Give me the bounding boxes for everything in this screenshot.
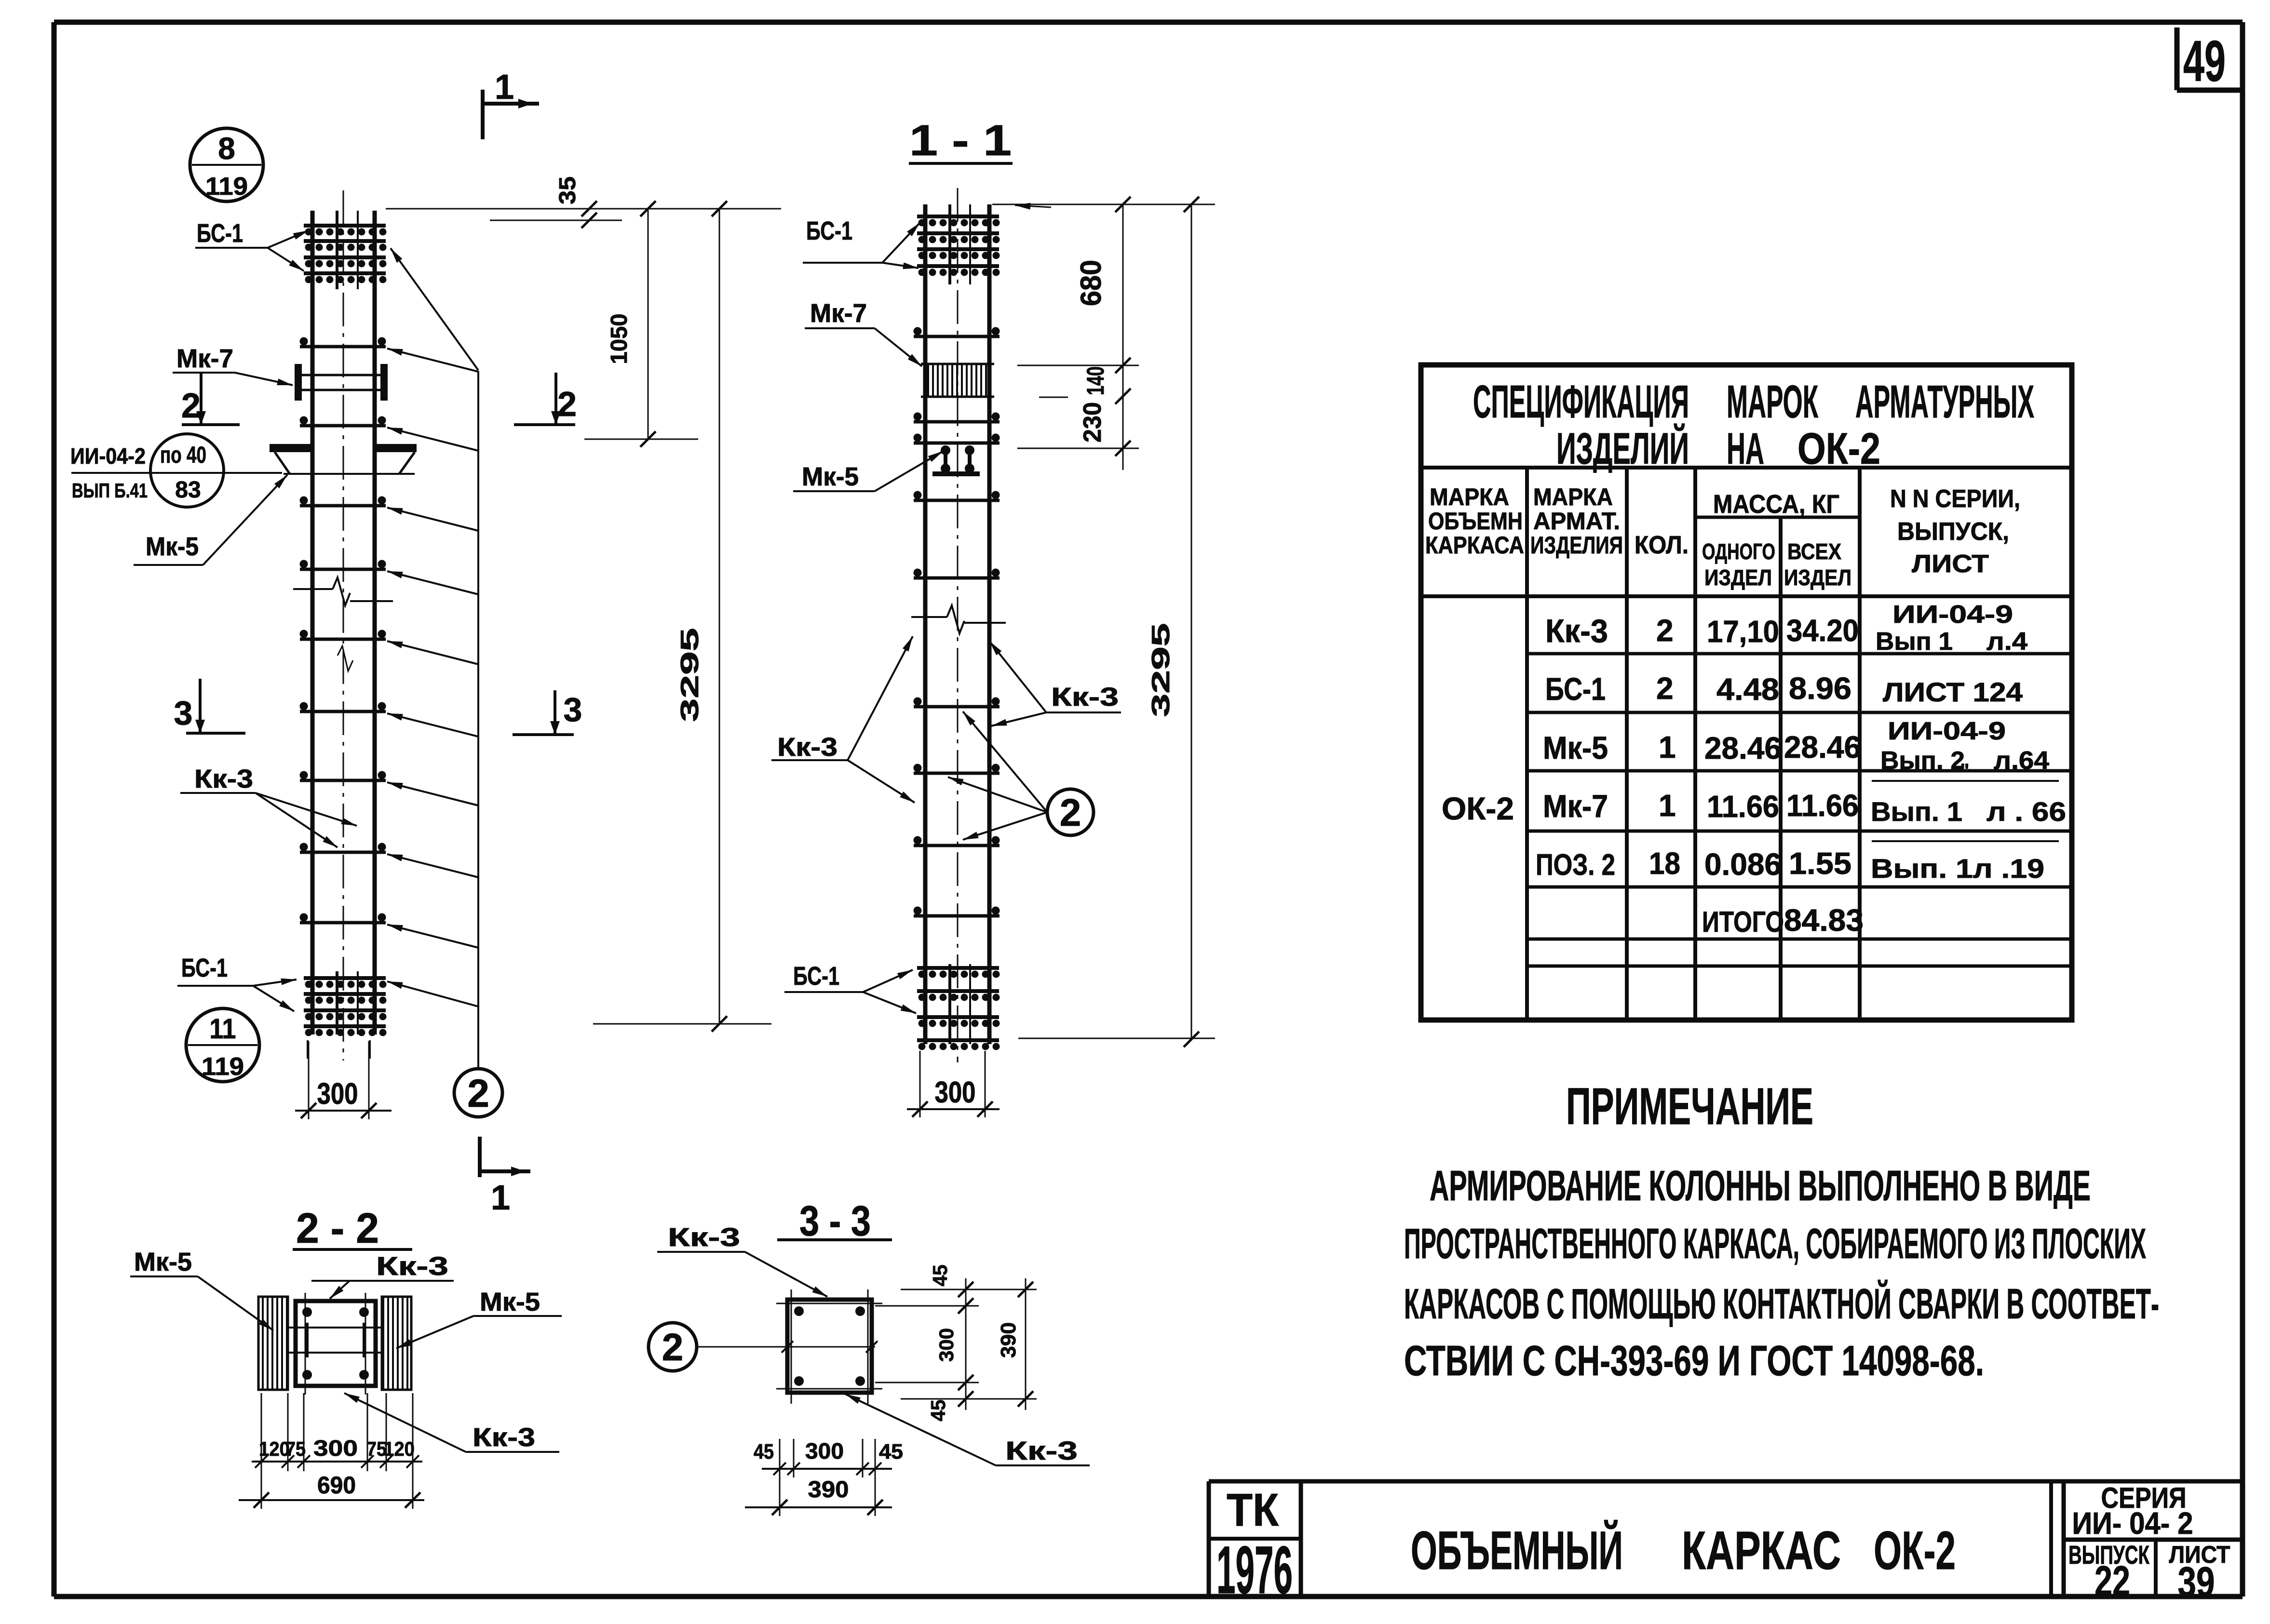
svg-text:3295: 3295 [676,628,704,722]
svg-text:Мк-5: Мк-5 [146,532,199,561]
svg-text:8.96: 8.96 [1789,671,1851,706]
svg-text:1: 1 [1659,730,1676,765]
svg-text:Мк-5: Мк-5 [802,462,859,491]
svg-text:22: 22 [2094,1557,2130,1605]
svg-text:45: 45 [927,1400,949,1422]
svg-text:Кк-3: Кк-3 [777,733,838,762]
svg-text:390: 390 [997,1322,1020,1358]
svg-text:МАРКА: МАРКА [1533,483,1613,510]
svg-text:45: 45 [879,1440,903,1463]
svg-text:2: 2 [1060,791,1081,834]
svg-text:84.83: 84.83 [1784,903,1864,938]
svg-text:120: 120 [384,1437,415,1460]
svg-text:ИЗДЕЛИЙ: ИЗДЕЛИЙ [1556,423,1689,473]
svg-text:3: 3 [174,694,193,732]
svg-text:Кк-3: Кк-3 [1005,1436,1078,1465]
svg-text:2: 2 [1656,671,1674,706]
svg-text:140: 140 [1082,366,1109,395]
svg-text:СПЕЦИФИКАЦИЯ: СПЕЦИФИКАЦИЯ [1473,376,1689,428]
svg-text:ИЗДЕЛ: ИЗДЕЛ [1704,565,1772,590]
svg-text:2 - 2: 2 - 2 [296,1204,379,1252]
svg-text:690: 690 [317,1472,356,1499]
svg-text:ПОЗ. 2: ПОЗ. 2 [1536,848,1615,882]
svg-text:Вып. 1л .19: Вып. 1л .19 [1871,853,2044,884]
svg-text:45: 45 [754,1440,774,1463]
svg-text:390: 390 [808,1477,849,1503]
svg-text:МАРКА: МАРКА [1430,483,1509,510]
svg-text:ЛИСТ 124: ЛИСТ 124 [1883,677,2023,707]
svg-text:8: 8 [218,131,235,166]
svg-text:МАССА, КГ: МАССА, КГ [1713,490,1839,519]
svg-text:ОБЪЕМН: ОБЪЕМН [1428,508,1523,535]
svg-text:83: 83 [175,477,201,503]
svg-text:300: 300 [935,1328,958,1362]
svg-text:АРМАТ.: АРМАТ. [1533,508,1620,535]
svg-text:Кк-3: Кк-3 [1051,683,1119,711]
svg-text:ОБЪЕМНЫЙ: ОБЪЕМНЫЙ [1411,1520,1623,1581]
svg-text:ВЫПУСК,: ВЫПУСК, [1897,518,2009,546]
svg-text:АРМИРОВАНИЕ КОЛОННЫ ВЫПОЛНЕНО: АРМИРОВАНИЕ КОЛОННЫ ВЫПОЛНЕНО В ВИДЕ [1430,1162,2091,1209]
svg-text:Кк-3: Кк-3 [473,1423,535,1452]
svg-text:БС-1: БС-1 [181,953,228,982]
svg-text:1 - 1: 1 - 1 [909,117,1012,165]
svg-text:ИТОГО: ИТОГО [1702,906,1784,938]
svg-text:Кк-3: Кк-3 [668,1223,740,1252]
svg-text:БС-1: БС-1 [793,962,839,991]
svg-text:49: 49 [2183,29,2226,94]
svg-text:ВСЕХ: ВСЕХ [1787,539,1841,564]
svg-text:11: 11 [210,1013,236,1045]
svg-text:ПРОСТРАНСТВЕННОГО КАРКАСА, СОБ: ПРОСТРАНСТВЕННОГО КАРКАСА, СОБИРАЕМОГО И… [1404,1220,2146,1267]
svg-text:л . 66: л . 66 [1986,796,2066,827]
svg-text:300: 300 [317,1077,358,1111]
svg-text:28.46: 28.46 [1784,730,1861,765]
svg-text:ИЗДЕЛИЯ: ИЗДЕЛИЯ [1530,532,1623,559]
svg-text:КАРКАСА: КАРКАСА [1425,532,1524,559]
svg-text:ТК: ТК [1227,1484,1279,1536]
svg-text:1976: 1976 [1216,1532,1293,1608]
svg-text:119: 119 [205,173,248,201]
svg-text:ОК-2: ОК-2 [1874,1520,1956,1581]
svg-text:Мк-5: Мк-5 [1543,730,1608,765]
svg-text:1: 1 [495,68,514,107]
svg-text:28.46: 28.46 [1704,731,1782,765]
svg-text:Вып 1: Вып 1 [1876,628,1953,656]
svg-text:2: 2 [1656,613,1674,648]
svg-text:17,10: 17,10 [1707,614,1779,649]
svg-text:300: 300 [935,1076,976,1109]
svg-text:18: 18 [1649,846,1680,881]
svg-text:Мк-7: Мк-7 [1543,788,1608,824]
svg-text:ЛИСТ: ЛИСТ [1912,550,1989,578]
svg-text:11.66: 11.66 [1707,789,1779,824]
svg-text:Мк-7: Мк-7 [810,299,867,328]
svg-text:БС-1: БС-1 [1545,671,1606,707]
svg-text:300: 300 [313,1436,358,1461]
svg-text:ОК-2: ОК-2 [1442,791,1514,826]
svg-text:Вып. 2: Вып. 2 [1880,747,1965,775]
svg-text:ИЗДЕЛ: ИЗДЕЛ [1784,565,1851,590]
svg-text:75: 75 [285,1437,306,1460]
svg-text:1: 1 [1659,788,1676,823]
svg-text:Мк-5: Мк-5 [134,1248,192,1276]
svg-text:ВЫП Б.41: ВЫП Б.41 [72,479,148,502]
svg-text:34.20: 34.20 [1786,613,1859,648]
svg-text:3295: 3295 [1147,623,1175,717]
svg-text:Мк-7: Мк-7 [176,344,233,373]
svg-text:300: 300 [805,1438,844,1463]
svg-text:Кк-3: Кк-3 [1545,613,1608,649]
svg-text:Кк-3: Кк-3 [376,1252,448,1281]
svg-text:2: 2 [181,387,201,425]
svg-text:л.64: л.64 [1994,747,2049,775]
svg-text:3 - 3: 3 - 3 [799,1197,871,1245]
svg-text:45: 45 [929,1265,951,1287]
svg-text:МАРОК: МАРОК [1727,376,1818,428]
svg-text:119: 119 [202,1053,244,1081]
svg-text:4.48: 4.48 [1716,672,1779,707]
svg-text:Вып. 1: Вып. 1 [1871,796,1962,827]
svg-text:2: 2 [467,1072,489,1115]
svg-text:N N СЕРИИ,: N N СЕРИИ, [1890,485,2020,513]
svg-text:НА: НА [1727,424,1764,473]
svg-text:СТВИИ С СН-393-69 И ГОСТ 14098: СТВИИ С СН-393-69 И ГОСТ 14098-68. [1404,1337,1984,1384]
svg-text:АРМАТУРНЫХ: АРМАТУРНЫХ [1855,376,2034,428]
svg-text:ИИ-04-2: ИИ-04-2 [70,443,146,469]
svg-text:ОДНОГО: ОДНОГО [1702,539,1775,564]
svg-text:КОЛ.: КОЛ. [1635,531,1689,559]
svg-text:Кк-3: Кк-3 [194,765,253,793]
svg-text:680: 680 [1075,260,1107,306]
svg-text:ОК-2: ОК-2 [1797,424,1880,473]
svg-text:Мк-5: Мк-5 [480,1288,540,1316]
svg-text:2: 2 [662,1326,684,1369]
svg-text:230: 230 [1079,402,1107,443]
svg-text:0.086: 0.086 [1704,847,1782,882]
svg-text:БС-1: БС-1 [197,219,243,248]
svg-text:БС-1: БС-1 [806,216,852,245]
svg-text:КАРКАС: КАРКАС [1682,1520,1841,1581]
svg-text:ИИ-04-9: ИИ-04-9 [1888,717,2006,745]
svg-text:КАРКАСОВ С ПОМОЩЬЮ КОНТАКТНОЙ: КАРКАСОВ С ПОМОЩЬЮ КОНТАКТНОЙ СВАРКИ В С… [1404,1280,2159,1328]
svg-text:1050: 1050 [607,314,632,364]
svg-text:1.55: 1.55 [1789,846,1851,881]
svg-text:2: 2 [557,385,577,424]
svg-text:39: 39 [2178,1558,2215,1606]
svg-text:ИИ- 04- 2: ИИ- 04- 2 [2072,1506,2193,1541]
svg-text:л.4: л.4 [1986,628,2027,656]
svg-text:3: 3 [564,691,582,728]
svg-text:35: 35 [555,176,581,204]
svg-text:1: 1 [491,1179,510,1217]
svg-text:ИИ-04-9: ИИ-04-9 [1892,601,2013,629]
svg-text:11.66: 11.66 [1786,788,1859,823]
svg-text:ПРИМЕЧАНИЕ: ПРИМЕЧАНИЕ [1566,1077,1813,1135]
svg-text:": " [1960,760,1970,781]
svg-text:по 40: по 40 [160,443,206,468]
